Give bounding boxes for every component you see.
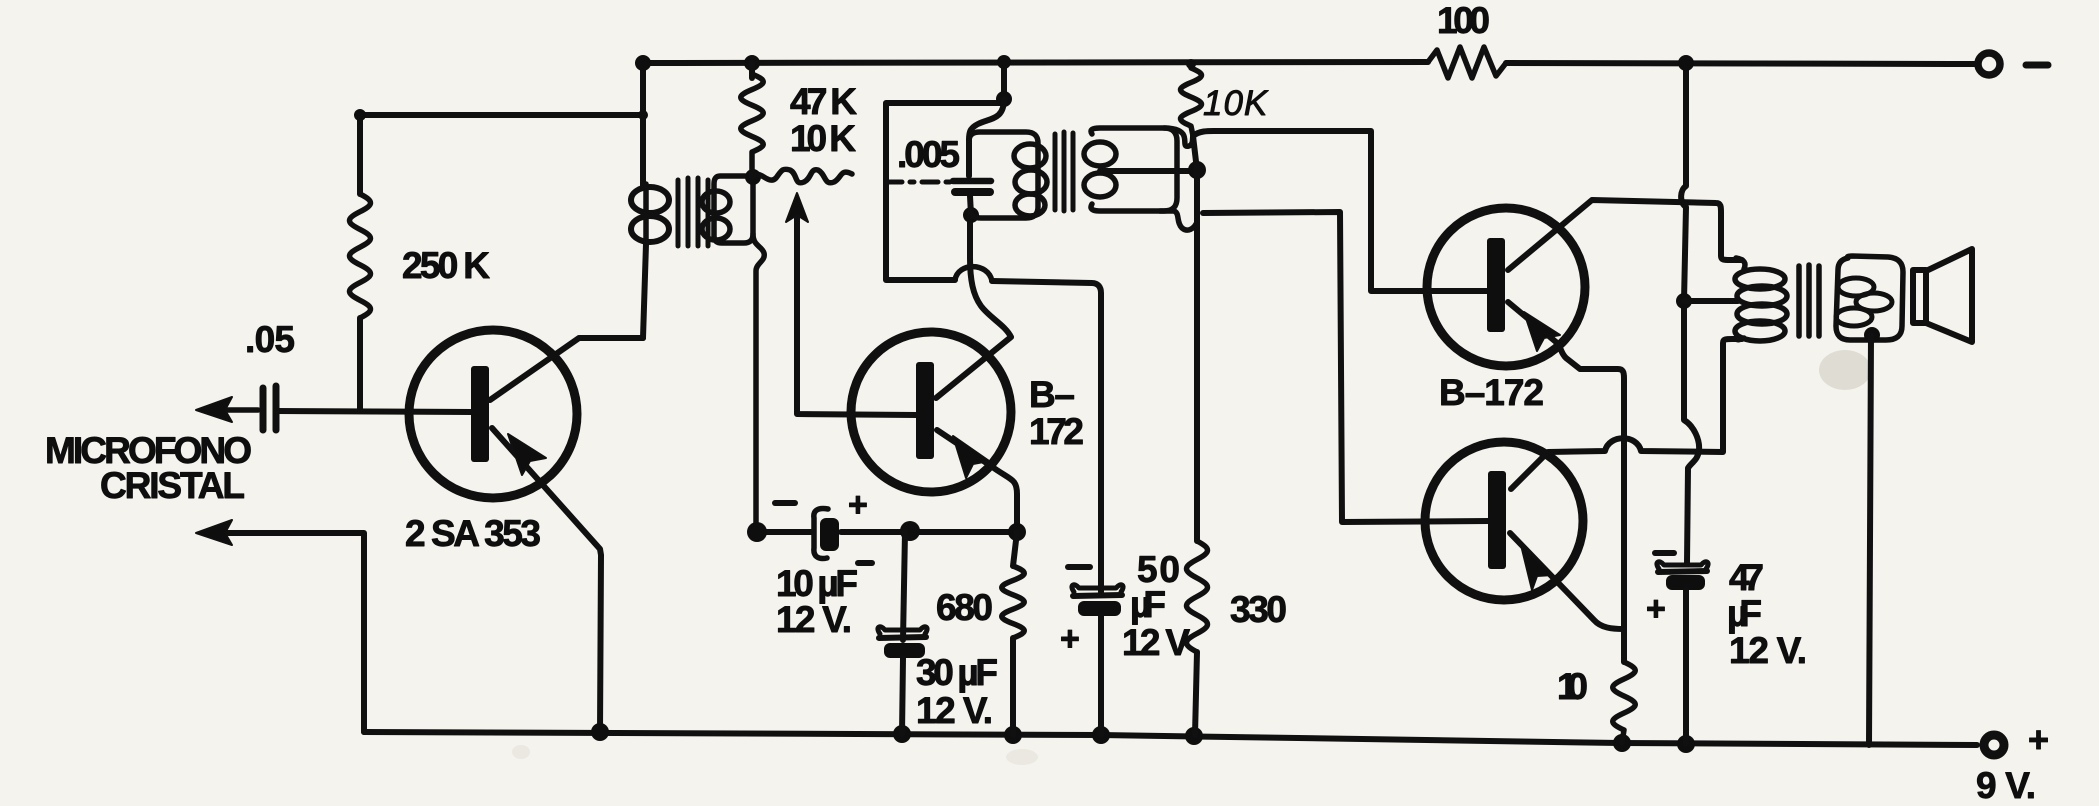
svg-text:680: 680: [936, 587, 993, 628]
svg-text:12 V: 12 V: [1122, 622, 1190, 663]
wire: cap to Q1 base: [276, 411, 472, 412]
svg-text:.05: .05: [245, 319, 295, 360]
resistor 330: [1187, 541, 1208, 652]
Q1 collector wire: [490, 338, 643, 400]
wire: wiper down to Q2 base: [797, 298, 917, 415]
T2 primary top lead from bus: [1001, 62, 1007, 99]
T2 primary left edge above cap: [966, 140, 972, 176]
svg-text:B–: B–: [1029, 374, 1075, 415]
svg-text:+: +: [1646, 590, 1666, 628]
speaker: [1913, 270, 1926, 323]
resistor 47K/10K (volume control): [741, 74, 764, 177]
paper stains: [512, 350, 1871, 765]
svg-text:172: 172: [1029, 411, 1084, 452]
Q3 emitter wire: [1508, 302, 1624, 662]
label minus (50uF): [1068, 564, 1090, 570]
input arrow 2: [212, 533, 364, 732]
T3 secondary bottom lead to ground: [1864, 327, 1880, 343]
dash-dot pointer line: [886, 180, 952, 185]
label minus (10uF): [775, 500, 795, 506]
wire: 10uF line (T1 secondary bottom to Q2 emitter): [756, 529, 813, 535]
wire: bus node down to output transformer center tap and 47uF: [1681, 63, 1699, 563]
wire: 30uF branch down: [903, 532, 905, 640]
wire: top node horizontal to transformer T1: [360, 112, 643, 118]
svg-text:9 V.: 9 V.: [1976, 765, 2036, 806]
svg-text:250 K: 250 K: [402, 245, 490, 286]
Q4 emitter arrow: [1521, 545, 1553, 590]
wire hop over .005 branch: [955, 267, 992, 281]
resistor 100 (in top bus): [1428, 47, 1506, 78]
stray minus (10uF): [858, 560, 872, 566]
svg-text:12 V.: 12 V.: [776, 599, 852, 640]
svg-text:12 V.: 12 V.: [1729, 630, 1807, 671]
svg-text:10 µF: 10 µF: [776, 563, 858, 604]
Q2 emitter wire: [937, 430, 1017, 532]
wire: top negative supply bus: [643, 62, 1428, 63]
capacitor .05: [260, 388, 267, 430]
svg-text:47: 47: [1729, 557, 1764, 598]
transistor Q2 B-172: [851, 332, 1011, 492]
svg-text:330: 330: [1230, 589, 1287, 630]
Q4 emitter wire: [1510, 533, 1624, 629]
Q4 collector wire with hop over emitter line: [1511, 339, 1742, 489]
svg-text:µF: µF: [1130, 584, 1166, 625]
resistor 10K (bias): [1181, 68, 1202, 136]
capacitor 30uF: [878, 627, 927, 634]
svg-text:.005: .005: [897, 134, 960, 175]
T2 center tap line: [1100, 168, 1197, 174]
T1 secondary winding: [714, 176, 753, 243]
wire: secondary bottom node to Q4 base: [1203, 212, 1489, 522]
svg-text:100: 100: [1437, 0, 1490, 41]
T1 secondary top lead junction: [745, 169, 761, 185]
T1 primary loops: [643, 184, 649, 244]
junction dots on rail: [591, 723, 1695, 753]
svg-text:+: +: [1060, 620, 1080, 658]
terminal: output negative: [1978, 53, 2000, 75]
svg-text:µF: µF: [1727, 593, 1762, 634]
potentiometer wiper arrow: [794, 214, 800, 298]
svg-text:+: +: [848, 486, 868, 524]
Q2 emitter arrow: [953, 436, 989, 478]
svg-text:CRISTAL: CRISTAL: [100, 465, 245, 506]
transistor Q1 2SA353: [409, 330, 577, 498]
T3 secondary body and loops: [1836, 256, 1903, 340]
capacitor .005: [953, 178, 991, 185]
resistor 680: [1013, 532, 1017, 566]
terminal: 9V positive: [1984, 735, 2004, 755]
Q1 emitter arrow: [508, 434, 546, 475]
T2 core: [1055, 132, 1073, 211]
T1 primary top lead: [640, 63, 646, 186]
wire: secondary top node to Q3 base: [1193, 131, 1489, 291]
transistor Q3 B-172 upper output: [1427, 208, 1585, 366]
wire: 10K node down through center tap to 330: [1193, 136, 1197, 541]
T2 secondary bottom lead hook: [1160, 211, 1196, 230]
svg-text:47 K: 47 K: [790, 81, 857, 122]
svg-text:+: +: [2028, 719, 2049, 760]
T3 primary loops lower: [1737, 304, 1787, 324]
capacitor 50uF: [1072, 585, 1123, 592]
capacitor 47uF: [1657, 562, 1708, 569]
input arrow 1: [212, 407, 258, 413]
potentiometer track squiggle: [753, 169, 852, 183]
wire: box around .005 (T2 primary top to 50uF branch): [886, 103, 1002, 280]
T2 secondary top lead hook to 10K node: [1164, 128, 1193, 146]
svg-text:B–172: B–172: [1439, 372, 1544, 413]
Q2 collector wire with S-curve up to .005 node: [936, 216, 1011, 398]
Q3 collector wire: [1508, 200, 1742, 270]
T1 primary bottom lead to Q1 collector: [643, 244, 646, 338]
transistor Q4 B-172 lower output: [1425, 442, 1583, 600]
T2 secondary body and loops: [1091, 128, 1177, 211]
svg-text:10K: 10K: [1203, 84, 1269, 123]
T3 core: [1799, 265, 1819, 336]
T2 primary left edge below cap: [970, 196, 971, 215]
svg-text:30 µF: 30 µF: [916, 652, 998, 693]
T3 primary loops upper: [1736, 258, 1745, 269]
resistor 10: [1613, 662, 1636, 743]
svg-text:12 V.: 12 V.: [916, 690, 993, 731]
T3 center tap: [1684, 298, 1738, 304]
T1 secondary bottom lead: [753, 234, 764, 532]
svg-text:10 K: 10 K: [790, 118, 856, 159]
T2 primary body and loops: [969, 132, 1038, 218]
label minus (47uF): [1655, 550, 1674, 556]
resistor 250K: [350, 194, 371, 318]
svg-text:10: 10: [1557, 666, 1588, 707]
wire: vertical at x=360 (top node to base): [357, 115, 363, 194]
T1 core: [678, 178, 708, 246]
Q1 emitter wire: [492, 428, 601, 732]
Q3 emitter arrow: [1524, 312, 1560, 351]
svg-text:2 SA 353: 2 SA 353: [405, 513, 541, 554]
wire: bottom ground rail: [364, 732, 1977, 745]
capacitor 10uF: [814, 509, 828, 559]
